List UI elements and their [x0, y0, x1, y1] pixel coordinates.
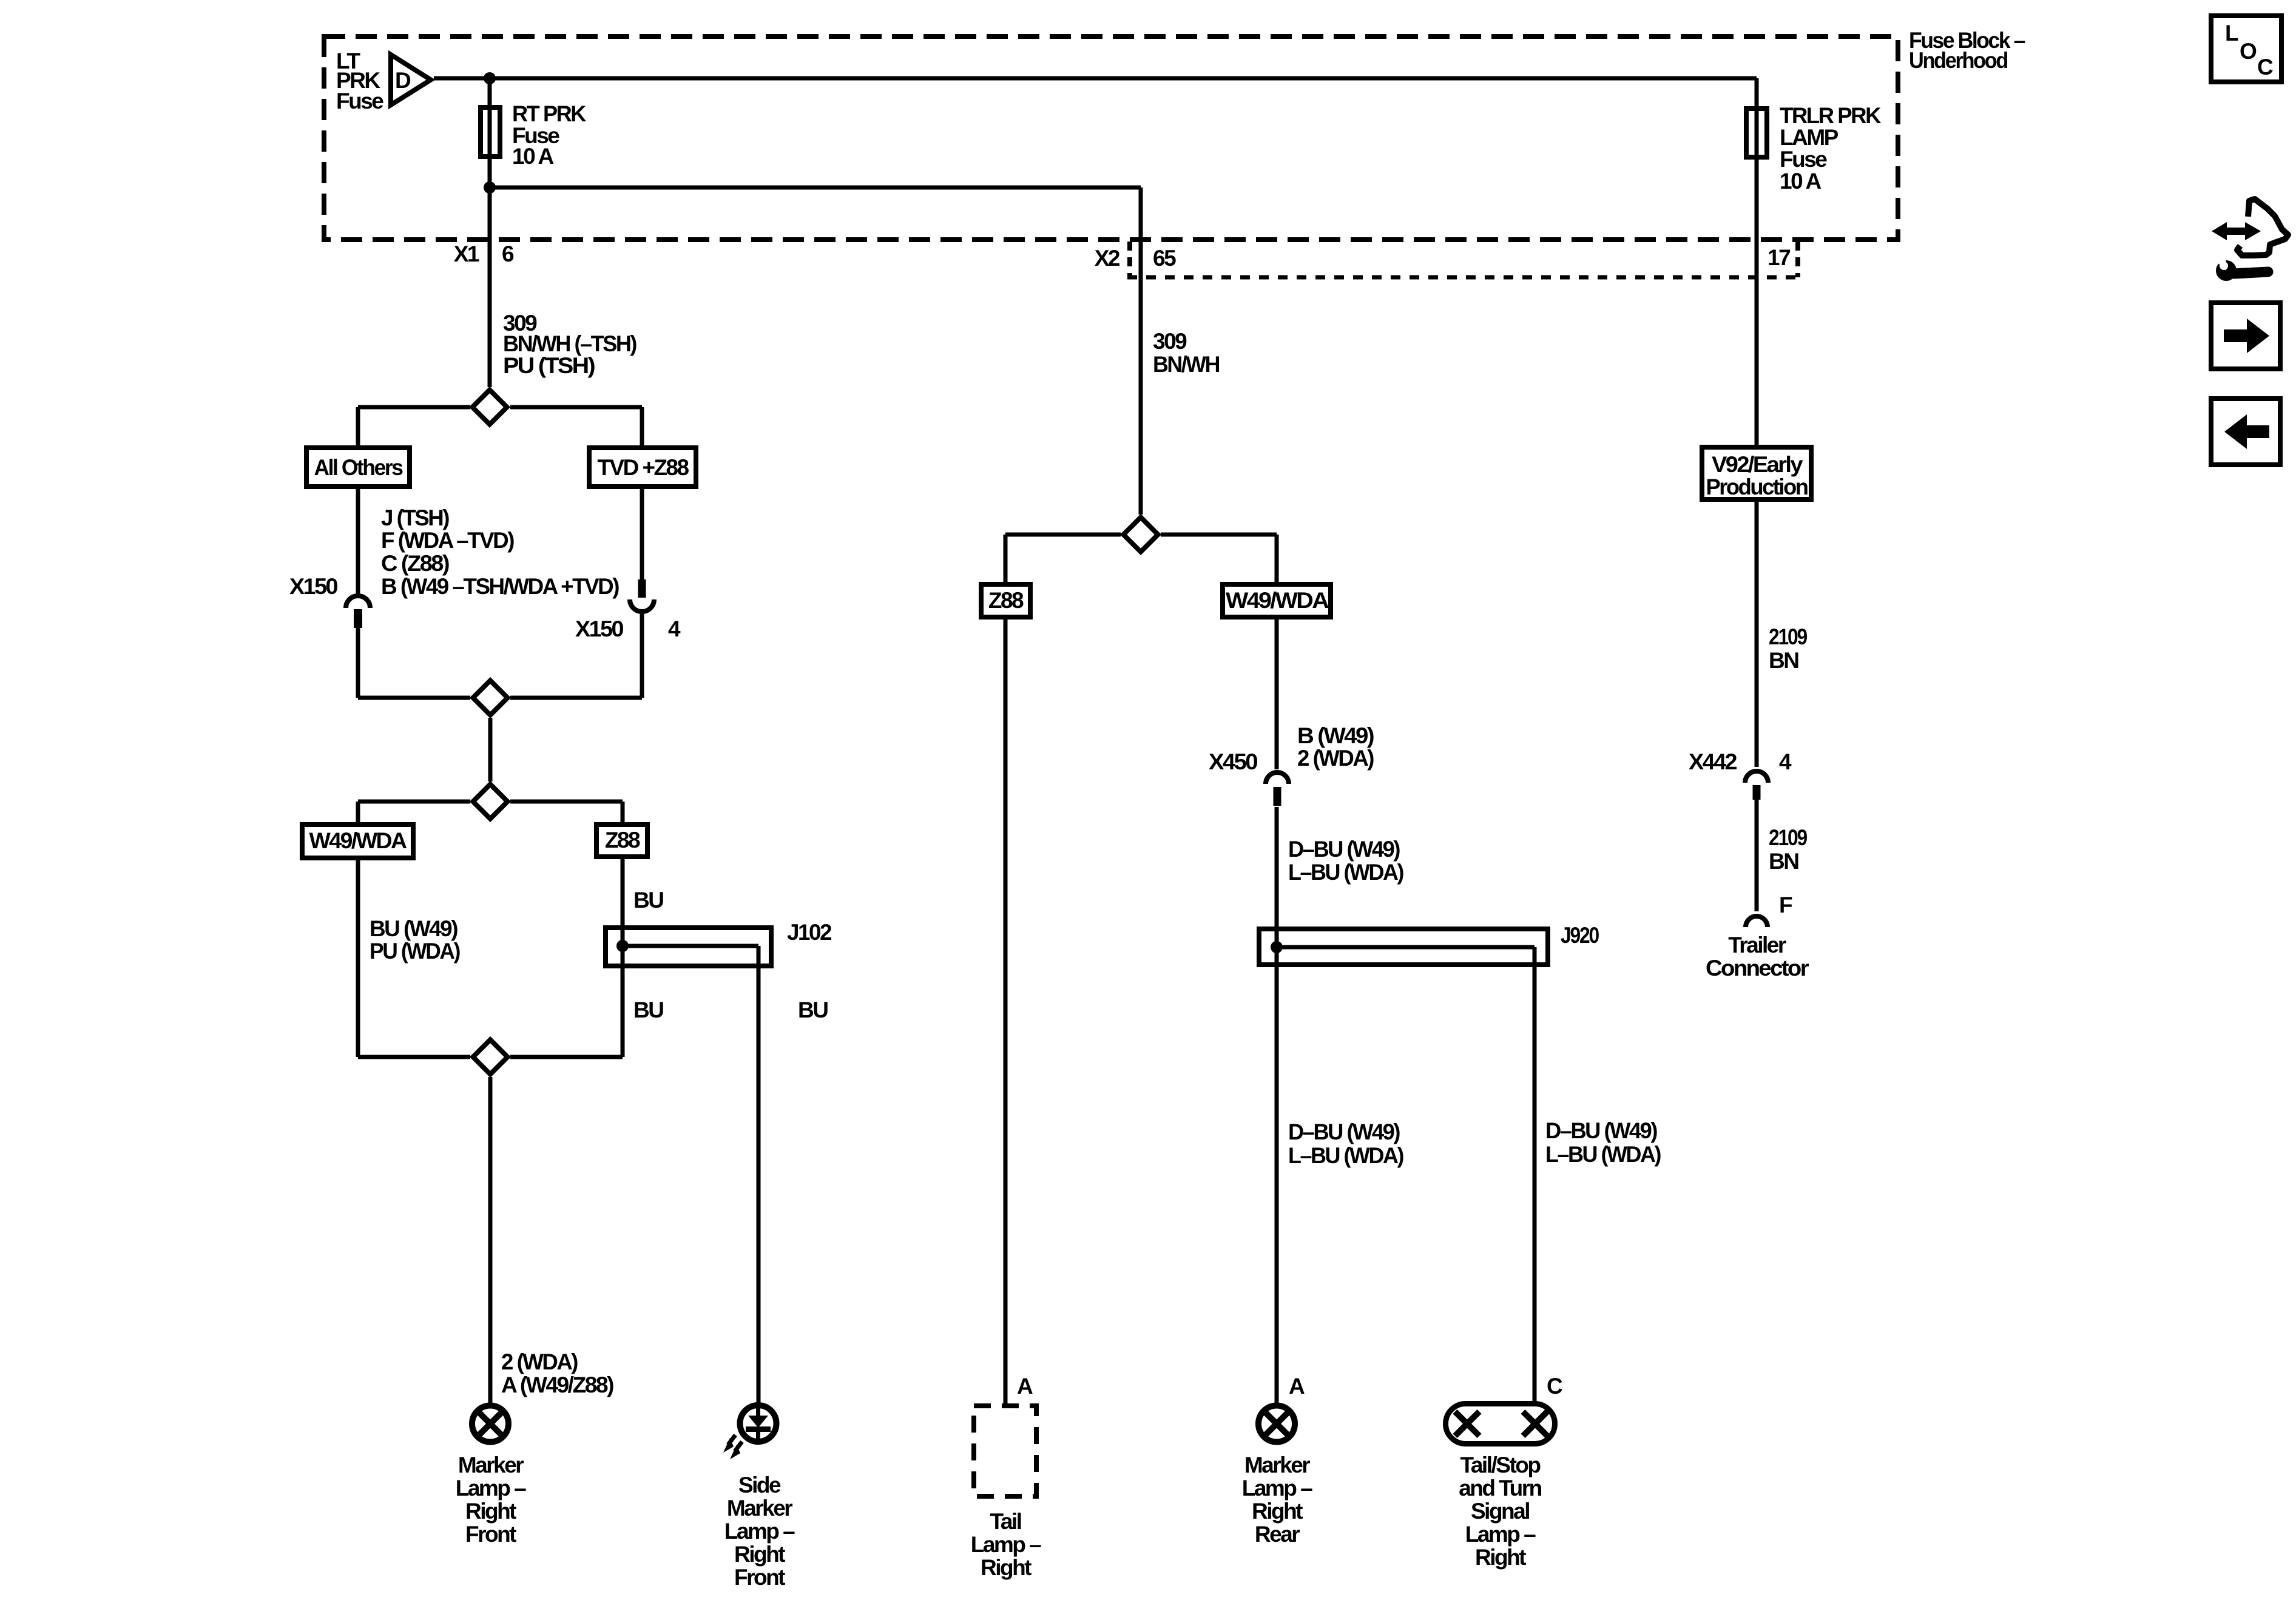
svg-text:Front: Front: [465, 1522, 516, 1547]
svg-text:2109: 2109: [1769, 825, 1808, 850]
svg-text:BN/WH (–TSH): BN/WH (–TSH): [503, 331, 636, 356]
svg-text:RT PRK: RT PRK: [512, 101, 587, 126]
svg-text:L–BU (WDA): L–BU (WDA): [1288, 1143, 1403, 1168]
svg-text:Right: Right: [734, 1542, 785, 1567]
svg-text:A: A: [1017, 1374, 1033, 1399]
svg-text:X150: X150: [289, 574, 338, 599]
svg-text:B (W49 –TSH/WDA +TVD): B (W49 –TSH/WDA +TVD): [381, 574, 619, 599]
svg-text:TRLR PRK: TRLR PRK: [1780, 103, 1882, 128]
svg-text:Z88: Z88: [605, 828, 640, 852]
svg-text:2 (WDA): 2 (WDA): [501, 1349, 578, 1374]
svg-text:Marker: Marker: [458, 1453, 524, 1477]
svg-text:Lamp –: Lamp –: [1465, 1522, 1536, 1547]
svg-text:X2: X2: [1095, 246, 1120, 271]
svg-text:PU (WDA): PU (WDA): [370, 939, 460, 964]
svg-text:C: C: [2257, 55, 2273, 79]
svg-text:Fuse: Fuse: [336, 89, 383, 113]
svg-text:10 A: 10 A: [512, 144, 554, 169]
svg-text:6: 6: [502, 241, 514, 266]
svg-text:PU (TSH): PU (TSH): [503, 353, 595, 378]
svg-text:Lamp –: Lamp –: [724, 1519, 795, 1544]
svg-text:Lamp –: Lamp –: [1242, 1476, 1312, 1501]
svg-text:X150: X150: [575, 616, 624, 641]
svg-text:B (W49): B (W49): [1297, 723, 1374, 748]
svg-text:A (W49/Z88): A (W49/Z88): [501, 1372, 613, 1397]
svg-text:C (Z88): C (Z88): [381, 551, 449, 576]
svg-text:D–BU (W49): D–BU (W49): [1545, 1118, 1657, 1143]
svg-text:D–BU (W49): D–BU (W49): [1288, 837, 1400, 862]
svg-text:X1: X1: [454, 241, 479, 266]
svg-text:BN: BN: [1769, 849, 1798, 874]
svg-text:17: 17: [1768, 245, 1790, 270]
svg-text:D: D: [395, 68, 411, 93]
svg-text:Fuse: Fuse: [1780, 147, 1827, 172]
svg-text:X450: X450: [1209, 749, 1258, 774]
svg-text:Right: Right: [981, 1555, 1032, 1580]
svg-text:Side: Side: [738, 1473, 781, 1497]
svg-text:and Turn: and Turn: [1459, 1476, 1541, 1501]
svg-text:10 A: 10 A: [1780, 169, 1822, 194]
svg-text:J102: J102: [787, 920, 832, 945]
svg-text:All Others: All Others: [314, 455, 403, 480]
svg-text:Tail/Stop: Tail/Stop: [1460, 1453, 1541, 1477]
svg-text:Connector: Connector: [1706, 956, 1809, 981]
svg-text:BU: BU: [798, 998, 828, 1022]
svg-text:W49/WDA: W49/WDA: [309, 828, 407, 853]
svg-text:L: L: [2225, 21, 2238, 46]
svg-text:Underhood: Underhood: [1909, 48, 2008, 73]
svg-text:309: 309: [1153, 329, 1187, 354]
svg-text:Lamp –: Lamp –: [456, 1476, 526, 1501]
svg-text:BU (W49): BU (W49): [370, 916, 458, 941]
svg-text:Marker: Marker: [727, 1496, 792, 1521]
svg-text:O: O: [2240, 39, 2257, 64]
svg-text:BN: BN: [1769, 648, 1798, 673]
svg-text:Signal: Signal: [1471, 1499, 1529, 1524]
svg-text:Marker: Marker: [1244, 1453, 1310, 1477]
svg-text:Right: Right: [1475, 1545, 1526, 1570]
svg-text:Z88: Z88: [988, 588, 1024, 613]
svg-text:LAMP: LAMP: [1780, 125, 1838, 150]
svg-text:D–BU (W49): D–BU (W49): [1288, 1119, 1400, 1144]
svg-text:BU: BU: [633, 888, 663, 913]
svg-text:TVD +Z88: TVD +Z88: [598, 455, 689, 480]
svg-text:W49/WDA: W49/WDA: [1226, 588, 1329, 613]
svg-text:J (TSH): J (TSH): [381, 505, 449, 530]
svg-text:65: 65: [1153, 246, 1176, 271]
svg-text:2 (WDA): 2 (WDA): [1297, 746, 1374, 771]
svg-text:V92/Early: V92/Early: [1712, 452, 1803, 477]
svg-text:L–BU (WDA): L–BU (WDA): [1545, 1142, 1661, 1167]
svg-text:Trailer: Trailer: [1728, 933, 1786, 957]
svg-text:Production: Production: [1706, 474, 1808, 499]
svg-text:Front: Front: [734, 1565, 785, 1590]
svg-text:Tail: Tail: [990, 1509, 1021, 1534]
svg-text:A: A: [1289, 1374, 1305, 1399]
svg-text:Right: Right: [465, 1499, 516, 1524]
svg-text:C: C: [1547, 1374, 1562, 1399]
svg-text:Right: Right: [1252, 1499, 1303, 1524]
svg-text:2109: 2109: [1769, 624, 1808, 649]
svg-text:L–BU (WDA): L–BU (WDA): [1288, 860, 1403, 885]
svg-text:X442: X442: [1689, 749, 1737, 774]
svg-text:Rear: Rear: [1255, 1522, 1300, 1547]
svg-text:BU: BU: [633, 998, 663, 1022]
svg-text:Lamp –: Lamp –: [971, 1532, 1041, 1557]
svg-text:F: F: [1779, 893, 1792, 917]
svg-text:F (WDA –TVD): F (WDA –TVD): [381, 528, 514, 553]
svg-text:BN/WH: BN/WH: [1153, 352, 1220, 377]
svg-text:4: 4: [668, 616, 681, 641]
svg-text:J920: J920: [1561, 923, 1599, 948]
svg-text:4: 4: [1779, 749, 1792, 774]
